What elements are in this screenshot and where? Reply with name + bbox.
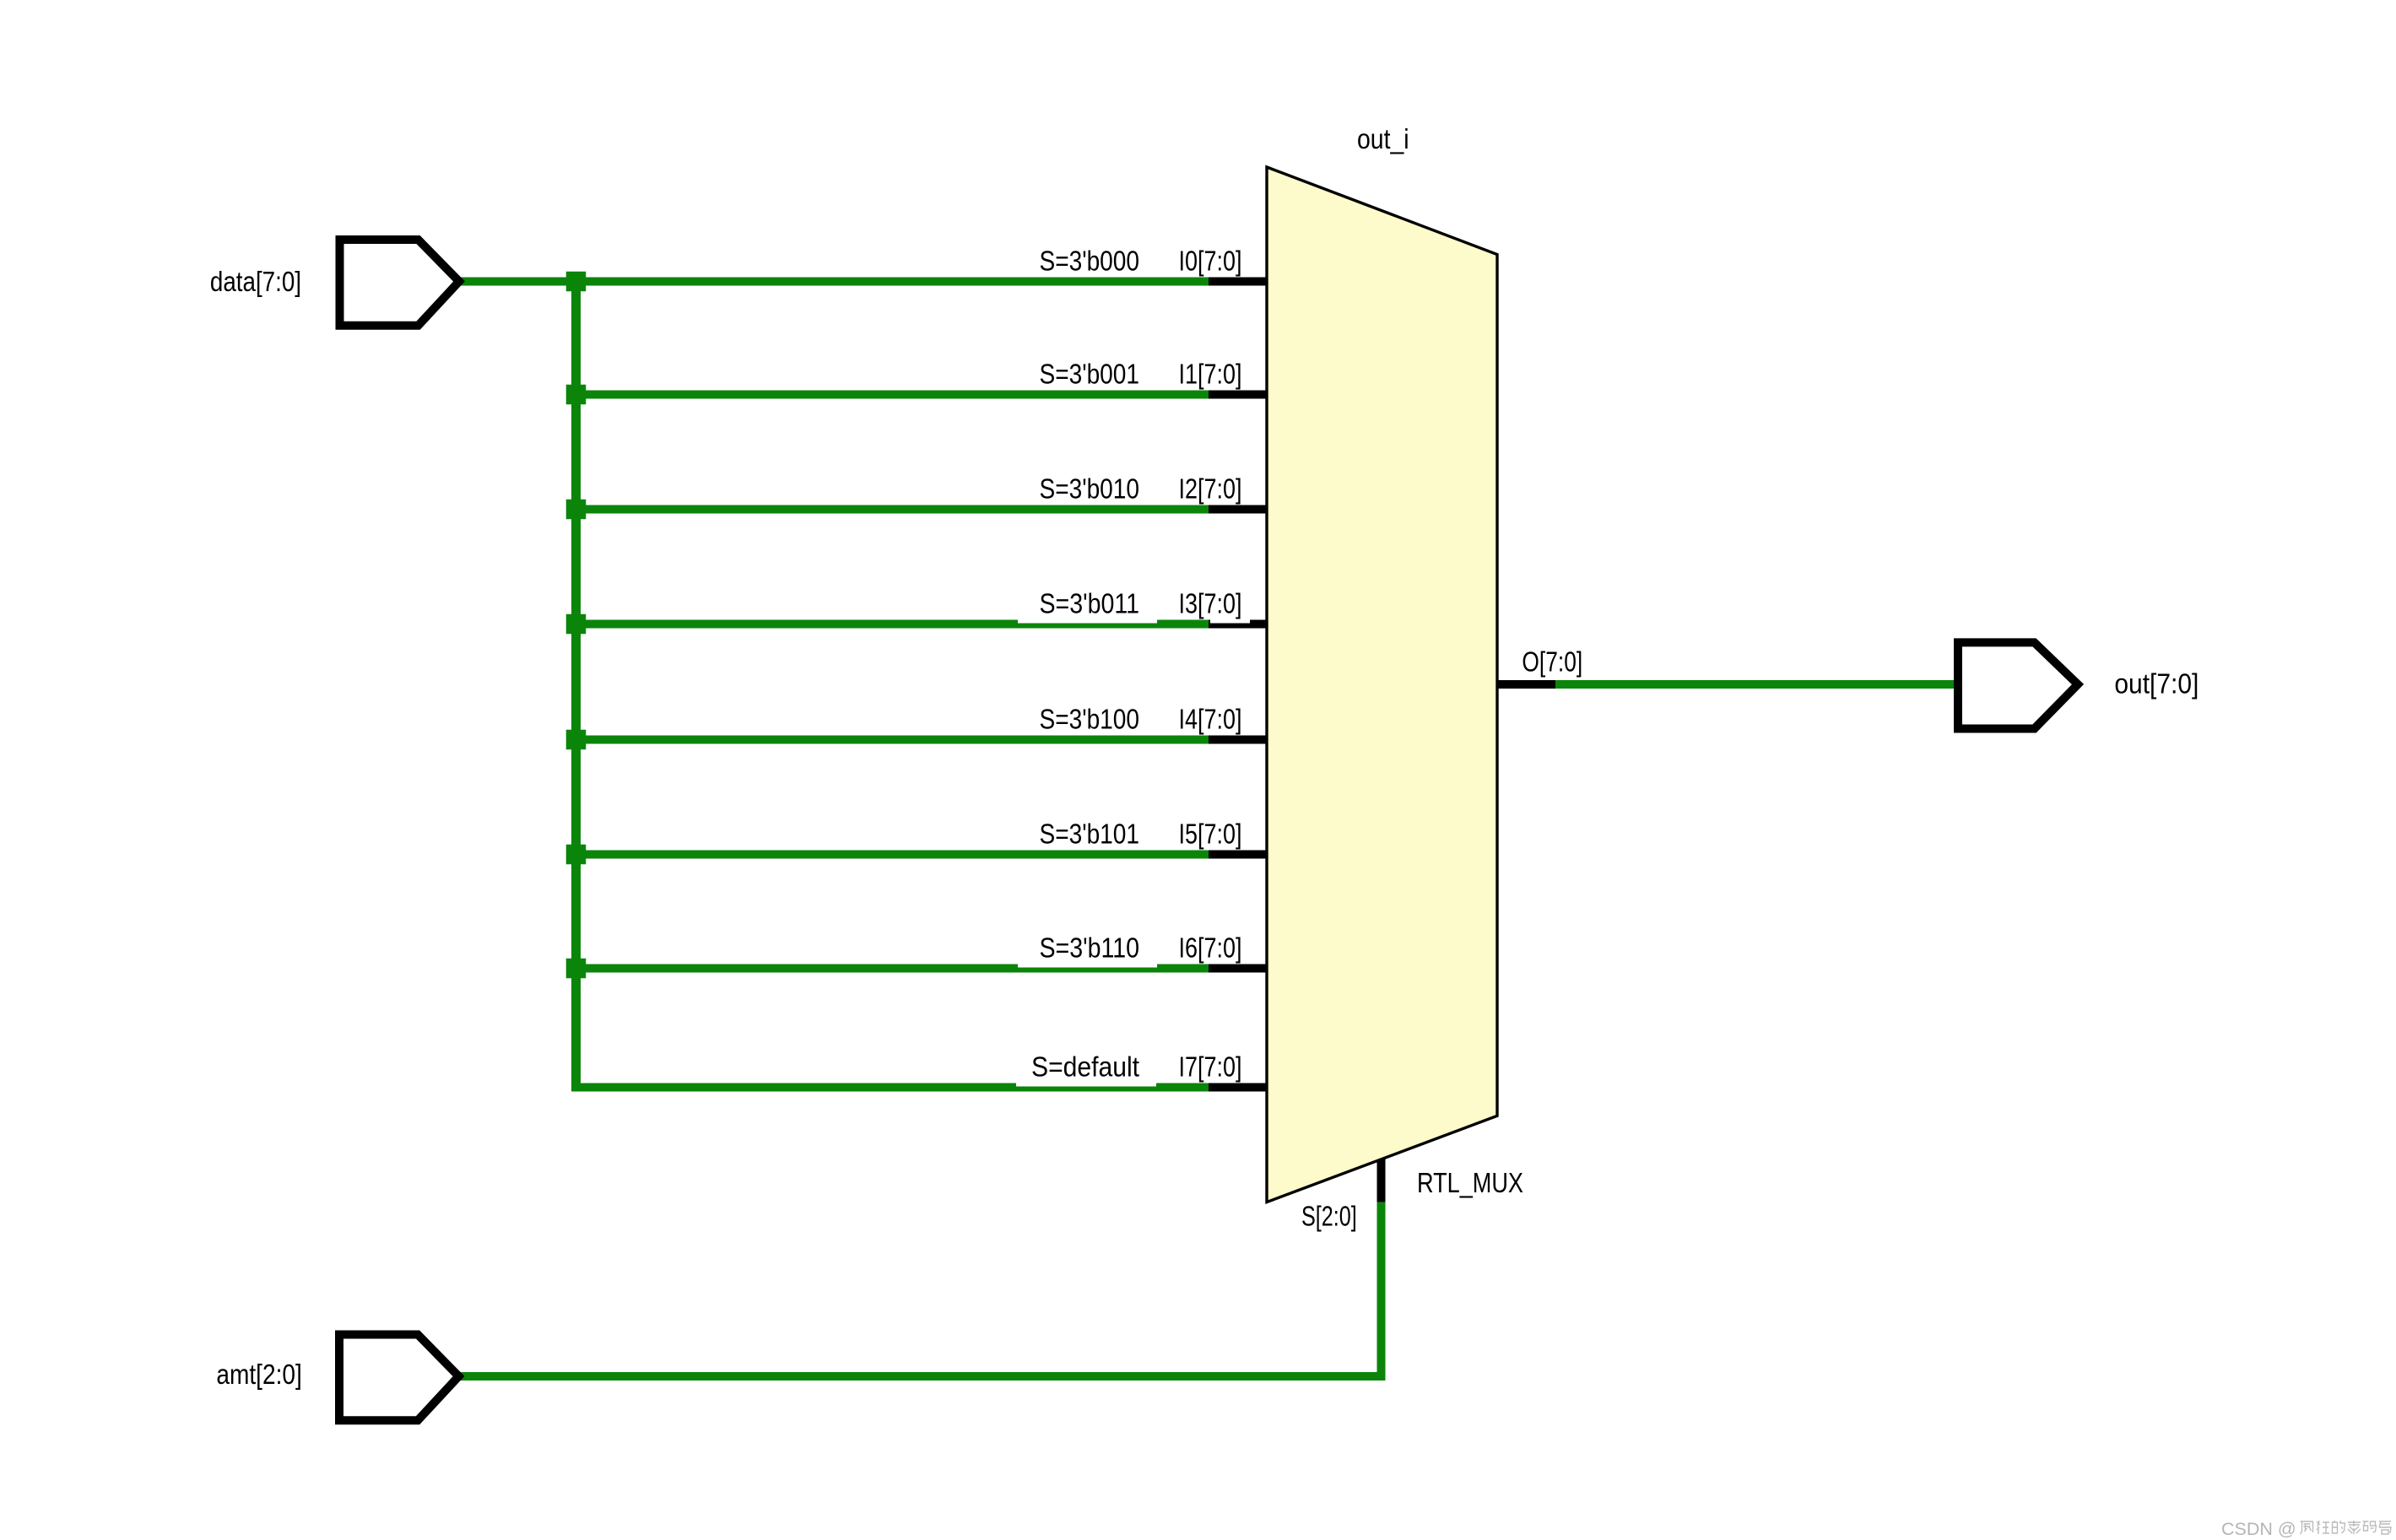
watermark cjk char 5 xyxy=(2363,1521,2377,1532)
svg-text:S[2:0]: S[2:0] xyxy=(1301,1202,1357,1233)
pin stub O xyxy=(1498,680,1555,689)
svg-text:S=3'b101: S=3'b101 xyxy=(1040,819,1140,851)
watermark cjk char 2 xyxy=(2317,1521,2329,1534)
wire S vertical xyxy=(1377,1202,1386,1381)
svg-text:S=3'b011: S=3'b011 xyxy=(1040,589,1140,620)
pin stub I1 xyxy=(1209,391,1268,399)
svg-text:RTL_MUX: RTL_MUX xyxy=(1417,1168,1523,1199)
svg-text:O[7:0]: O[7:0] xyxy=(1522,647,1582,678)
svg-text:out[7:0]: out[7:0] xyxy=(2114,669,2199,700)
svg-text:S=3'b000: S=3'b000 xyxy=(1040,246,1140,278)
wire branch to I5 xyxy=(571,851,1209,859)
svg-text:I2[7:0]: I2[7:0] xyxy=(1179,474,1242,505)
pin stub I0 xyxy=(1209,278,1268,286)
svg-text:I7[7:0]: I7[7:0] xyxy=(1179,1052,1242,1083)
wire branch to I3 xyxy=(571,620,1209,629)
junction node row 4 xyxy=(566,614,587,635)
watermark cjk char 3 xyxy=(2333,1521,2345,1533)
wire amt horizontal xyxy=(460,1372,1386,1381)
junction node row 5 xyxy=(566,730,587,750)
svg-text:S=3'b010: S=3'b010 xyxy=(1040,474,1140,505)
port amt[2:0] xyxy=(339,1335,459,1421)
wire clip artifact row7 S label xyxy=(1018,948,1157,968)
stub clip artifact row4 xyxy=(1210,620,1250,624)
wire branch to I4 xyxy=(571,736,1209,744)
wire data[7:0] to I0 xyxy=(456,278,1209,286)
svg-text:I5[7:0]: I5[7:0] xyxy=(1179,819,1242,851)
svg-text:CSDN @: CSDN @ xyxy=(2221,1519,2296,1539)
wire out xyxy=(1555,680,1955,689)
pin stub I5 xyxy=(1209,851,1268,859)
pin stub I2 xyxy=(1209,505,1268,514)
port out[7:0] xyxy=(1958,642,2078,728)
junction node row 2 xyxy=(566,385,587,405)
wire clip artifact row4 S label xyxy=(1018,603,1157,624)
pin stub S xyxy=(1377,1159,1386,1202)
watermark cjk char 4 xyxy=(2348,1521,2361,1534)
junction node row 1 xyxy=(566,272,587,292)
junction node row 6 xyxy=(566,845,587,865)
watermark cjk char 1 xyxy=(2301,1521,2313,1534)
wire branch to I1 xyxy=(571,391,1209,399)
junction node row 3 xyxy=(566,500,587,520)
svg-text:I4[7:0]: I4[7:0] xyxy=(1179,705,1242,736)
watermark cjk char 6 xyxy=(2379,1521,2391,1534)
pin stub I3 xyxy=(1209,620,1268,629)
svg-text:S=default: S=default xyxy=(1031,1052,1140,1083)
svg-text:I6[7:0]: I6[7:0] xyxy=(1179,933,1242,965)
wire clip artifact row8 S label xyxy=(1016,1067,1156,1087)
pin stub I6 xyxy=(1209,965,1268,973)
svg-text:data[7:0]: data[7:0] xyxy=(210,267,301,298)
svg-text:I1[7:0]: I1[7:0] xyxy=(1179,359,1242,391)
wire branch to I6 xyxy=(571,965,1209,973)
svg-text:I0[7:0]: I0[7:0] xyxy=(1179,246,1242,278)
svg-text:S=3'b110: S=3'b110 xyxy=(1040,933,1140,965)
wire branch to I2 xyxy=(571,505,1209,514)
svg-text:amt[2:0]: amt[2:0] xyxy=(216,1359,301,1391)
wire vertical data bus xyxy=(571,278,581,1092)
svg-text:S=3'b100: S=3'b100 xyxy=(1040,705,1140,736)
wire branch to I7 xyxy=(571,1083,1209,1092)
mux out_i RTL_MUX body xyxy=(1267,167,1497,1202)
svg-text:out_i: out_i xyxy=(1357,124,1409,155)
pin stub I7 xyxy=(1209,1083,1268,1092)
svg-text:I3[7:0]: I3[7:0] xyxy=(1179,589,1242,620)
junction node row 7 xyxy=(566,959,587,979)
pin stub I4 xyxy=(1209,736,1268,744)
port data[7:0] xyxy=(340,240,460,326)
svg-text:S=3'b001: S=3'b001 xyxy=(1040,359,1140,391)
